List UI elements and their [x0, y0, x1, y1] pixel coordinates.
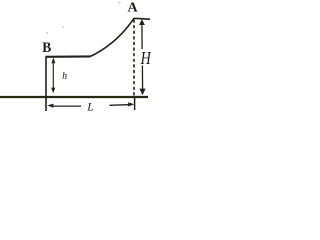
step left vertical edge with extension below ground: [45, 57, 47, 111]
svg-text:h: h: [62, 71, 67, 82]
speckle noise dot 3: [119, 2, 121, 3]
dimension L right shaft: [110, 104, 131, 107]
plateau top edge (B ledge): [45, 55, 90, 57]
svg-text:L: L: [86, 101, 93, 113]
dimension h arrow line: [52, 61, 54, 91]
speckle noise dot 1: [46, 32, 48, 34]
speckle noise dot 2: [62, 26, 64, 28]
h arrowhead down: [51, 88, 55, 94]
svg-text:A: A: [128, 1, 139, 16]
h arrowhead up: [51, 57, 55, 63]
dashed drop line from A: [133, 20, 135, 96]
ground line: [0, 96, 148, 98]
svg-text:B: B: [42, 39, 51, 56]
background: [0, 0, 151, 113]
H arrowhead up: [139, 19, 145, 25]
dimension L left shaft: [52, 105, 81, 107]
dashed line extension below ground: [134, 96, 136, 110]
svg-text:H: H: [140, 50, 151, 69]
L arrowhead right: [128, 102, 134, 106]
incline from plateau up to A: [91, 18, 135, 56]
peak top edge at A: [134, 17, 150, 20]
L arrowhead left: [47, 104, 53, 108]
H arrowhead down: [139, 89, 145, 96]
dimension H arrow line upper segment: [141, 22, 143, 49]
dimension H arrow line lower segment: [141, 66, 143, 91]
